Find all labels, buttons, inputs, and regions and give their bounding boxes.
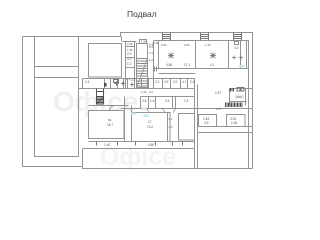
svg-text:16.7: 16.7	[107, 123, 113, 127]
svg-text:4.9: 4.9	[204, 121, 209, 125]
svg-text:2.0: 2.0	[173, 80, 178, 84]
svg-text:2.4: 2.4	[190, 80, 195, 84]
svg-text:4.86: 4.86	[166, 63, 172, 67]
svg-text:1.40: 1.40	[104, 143, 110, 147]
svg-text:Oфice: Oфice	[53, 86, 138, 117]
svg-text:4.9: 4.9	[164, 80, 169, 84]
svg-text:2.64: 2.64	[153, 41, 159, 45]
svg-text:2.6: 2.6	[149, 90, 153, 94]
svg-text:1.05: 1.05	[231, 121, 237, 125]
svg-text:1.87: 1.87	[215, 91, 221, 95]
svg-text:№: №	[108, 118, 112, 122]
svg-text:2.9: 2.9	[127, 52, 132, 56]
svg-text:2.08: 2.08	[127, 42, 133, 46]
svg-text:2.1: 2.1	[131, 78, 136, 82]
svg-text:4.1: 4.1	[210, 63, 215, 67]
svg-text:5.94: 5.94	[161, 43, 167, 47]
svg-text:4.3: 4.3	[149, 51, 153, 55]
svg-text:4.3: 4.3	[169, 125, 173, 129]
svg-text:4.3: 4.3	[127, 57, 132, 61]
svg-text:Подвал: Подвал	[127, 9, 157, 19]
svg-text:4.9: 4.9	[165, 99, 170, 103]
svg-text:13.2: 13.2	[147, 125, 153, 129]
svg-text:1.2: 1.2	[127, 62, 132, 66]
svg-text:17: 17	[148, 120, 152, 124]
svg-text:4.03: 4.03	[236, 95, 242, 99]
svg-text:4.1: 4.1	[234, 46, 239, 50]
svg-text:2.4: 2.4	[184, 99, 189, 103]
svg-text:17.1: 17.1	[184, 63, 190, 67]
svg-text:2.53: 2.53	[184, 43, 190, 47]
svg-text:Oфice: Oфice	[100, 143, 176, 171]
svg-text:2.1: 2.1	[169, 117, 173, 121]
svg-text:2.2: 2.2	[155, 80, 160, 84]
svg-text:1.6: 1.6	[150, 99, 155, 103]
svg-text:2.67: 2.67	[216, 107, 222, 111]
svg-text:1.6: 1.6	[85, 80, 90, 84]
svg-text:1.1: 1.1	[126, 77, 130, 81]
svg-text:1.43: 1.43	[205, 43, 211, 47]
svg-text:1.94: 1.94	[141, 40, 147, 44]
svg-text:4.7: 4.7	[182, 80, 187, 84]
svg-text:2.6: 2.6	[142, 99, 147, 103]
svg-text:4.80: 4.80	[148, 143, 154, 147]
svg-text:1.94: 1.94	[141, 90, 147, 94]
svg-text:1.2: 1.2	[149, 58, 153, 62]
svg-text:2.9: 2.9	[149, 45, 153, 49]
